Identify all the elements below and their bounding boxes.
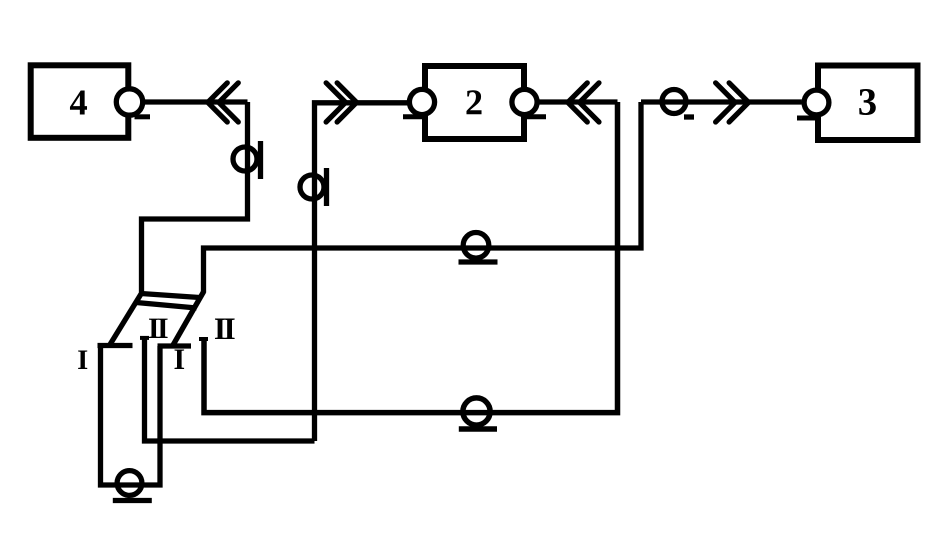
label 4 <box>70 91 87 115</box>
wire from corner to unit 3 branch going down to middle bus <box>204 102 642 292</box>
coupling chevron pair pointing left (right of unit 2) <box>568 83 599 122</box>
coupling chevron pair pointing left (near unit 4) <box>208 83 239 122</box>
coupling chevron pair pointing right (left of unit 2) <box>326 83 357 122</box>
connector circle on wire to unit 3 <box>662 90 686 114</box>
label 2 <box>466 90 481 114</box>
label 3 <box>859 89 876 115</box>
switch contact tick position I left <box>98 343 133 348</box>
connector circle at unit 2 left <box>409 89 434 114</box>
unit box 4 <box>31 65 129 138</box>
switch top bar A <box>141 294 200 298</box>
coupling S1 circle <box>233 147 257 171</box>
dash at connector unit 2 right <box>523 114 546 119</box>
label I right <box>175 349 185 368</box>
label II right <box>215 319 225 339</box>
switch link bar B <box>136 303 196 309</box>
dash under lower bus connector <box>459 426 497 432</box>
dash under middle bus connector <box>459 259 498 264</box>
switch contact tick position II right <box>199 337 208 341</box>
connector circle at unit 4 <box>116 89 142 115</box>
dash under loop connector <box>113 498 152 503</box>
wire corner to unit 3 <box>641 99 802 104</box>
coupling S2 bar <box>324 168 329 206</box>
label I left <box>78 350 87 369</box>
wire unit4 to corner <box>145 99 248 104</box>
dash at connector unit 3 <box>797 116 817 121</box>
switch arm left <box>110 294 141 345</box>
wire loop left contact down <box>101 346 161 486</box>
connector circle on loop <box>117 471 142 496</box>
switch contact tick position II left <box>140 336 149 340</box>
connector circle on middle bus <box>463 233 489 259</box>
unit box 3 <box>818 66 918 141</box>
dash at connector of unit 4 <box>135 114 151 119</box>
wire unit2 right to corner <box>540 99 618 104</box>
wire corner left of unit 2 going down <box>315 103 408 441</box>
switch contact tick position I right <box>158 343 192 348</box>
connector circle at unit 2 right <box>512 89 537 114</box>
dash at connector unit 2 left <box>403 114 427 119</box>
coupling S1 bar <box>258 141 263 179</box>
wire position II left contact down to bottom bus <box>145 338 315 441</box>
label II left <box>149 319 159 338</box>
switch arm right <box>173 291 205 346</box>
wire vertical from corner down through coupling S1 <box>142 102 248 295</box>
connector circle on lower bus <box>463 398 490 425</box>
dash at connector on wire to unit 3 <box>684 114 694 119</box>
coupling chevron pair pointing right (left of unit 3) <box>716 83 749 122</box>
wire long vertical from chevron corner down to lower bus <box>204 102 618 413</box>
connector circle at unit 3 <box>804 90 829 115</box>
unit box 2 <box>425 66 524 139</box>
coupling S2 circle <box>300 175 324 199</box>
